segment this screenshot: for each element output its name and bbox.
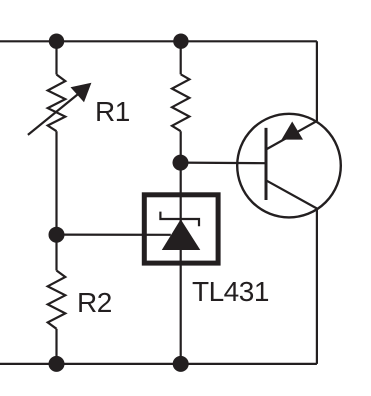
wire top rail [0,40,317,42]
wire middle branch (resistor bottom through TL431 to bottom rail) [180,131,182,364]
potentiometer arrowhead R1 [71,83,92,103]
TL431 package box [144,195,218,263]
resistor middle zigzag [172,74,189,131]
wire bottom rail [0,363,317,365]
transistor Q1 base bar [265,128,268,200]
node top-middle junction dot [173,34,188,49]
transistor Q1 collector diagonal (lower) [266,180,317,208]
wire right vertical (collector to top rail) [316,41,318,121]
transistor Q1 circle [237,114,341,218]
wire left branch vertical [55,41,57,74]
node top-left junction dot [49,34,64,49]
wire REF node to R2 top [55,235,57,271]
wire emitter vertical (transistor to bottom rail) [316,209,318,364]
node middle (TL431 cathode) junction dot [173,155,189,171]
svg-text:R1: R1 [95,96,130,127]
wire TL431 REF input [57,234,171,236]
node bottom-middle junction dot [173,356,189,372]
wire R1 bottom to REF node [55,131,57,234]
svg-text:TL431: TL431 [192,276,269,307]
node bottom-left junction dot [49,356,65,372]
transistor Q1 emitter diagonal (upper) [266,121,317,150]
svg-text:R2: R2 [77,287,112,318]
node REF junction dot [49,227,65,243]
wire middle branch top [180,41,182,74]
zener cathode bar inside TL431 [160,212,199,227]
resistor R2 zigzag [48,271,66,329]
wire R2 bottom to bottom rail [55,329,57,364]
wire base (node to transistor base bar) [181,162,266,165]
potentiometer arrow shaft R1 [28,93,80,135]
transistor emitter arrowhead [282,122,304,140]
resistor R1 zigzag [48,75,66,132]
TL431 internal triangle (shunt reference) [162,219,201,250]
